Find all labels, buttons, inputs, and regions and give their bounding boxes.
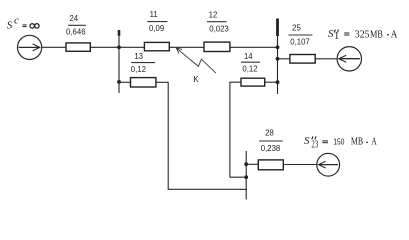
svg-text:150: 150	[333, 138, 345, 147]
label S23'' = 150 MB A	[304, 135, 377, 150]
svg-text:11: 11	[150, 10, 158, 19]
svg-text:S: S	[304, 135, 310, 147]
wire R12 to bus B	[230, 46, 278, 48]
generator G1 circle	[337, 47, 361, 71]
svg-text:K: K	[193, 75, 199, 84]
wire bus A to R13	[119, 81, 131, 83]
value label 14 / 0,12	[241, 52, 260, 74]
wire bus C to R28	[246, 163, 258, 165]
node dot bus C top	[244, 162, 248, 166]
resistor R14	[241, 78, 265, 86]
node dot bus B middle	[276, 57, 280, 61]
svg-text:0,646: 0,646	[66, 28, 86, 37]
svg-text:c: c	[14, 14, 19, 26]
generator G2 circle	[317, 153, 340, 176]
bus B vertical	[277, 19, 279, 95]
wire bus B to R25	[278, 58, 290, 60]
svg-text:23: 23	[311, 139, 318, 151]
wire R28 to generator G2	[283, 164, 317, 166]
wire R14 to bus B	[265, 81, 278, 83]
node dot bus B bottom	[276, 80, 280, 84]
node dot bus C bottom	[244, 175, 248, 179]
wire R13 loop down to bus C	[156, 82, 247, 189]
svg-text:1: 1	[334, 30, 340, 42]
svg-text:А: А	[371, 136, 376, 148]
svg-text:А: А	[391, 28, 398, 40]
svg-text:0,12: 0,12	[131, 65, 146, 74]
value label 25 / 0,107	[289, 23, 313, 46]
svg-text:0,12: 0,12	[242, 65, 257, 74]
svg-text:25: 25	[292, 23, 301, 32]
resistor R28	[258, 160, 283, 170]
value label 28 / 0,238	[259, 128, 283, 153]
wire R14 dogleg to bus C	[230, 82, 246, 177]
svg-text:14: 14	[244, 52, 253, 61]
svg-text:28: 28	[265, 128, 274, 137]
svg-text:13: 13	[134, 52, 143, 61]
label S1'' = 325 MB A	[328, 28, 397, 42]
source system S	[18, 35, 42, 59]
svg-text:24: 24	[69, 14, 78, 23]
node dot bus A bottom	[117, 80, 121, 84]
fault lightning bolt K	[176, 48, 216, 73]
resistor R24	[66, 43, 90, 51]
value label 24 / 0,646	[66, 14, 86, 36]
svg-text:МВ: МВ	[370, 28, 383, 40]
svg-text:0,023: 0,023	[209, 25, 229, 34]
svg-text:325: 325	[355, 28, 370, 40]
svg-text:МВ: МВ	[351, 136, 363, 148]
value label 11 / 0,09	[147, 10, 167, 33]
bus A vertical	[118, 30, 120, 93]
value label 12 / 0,023	[207, 11, 229, 34]
wire R24 to R11 across bus A	[90, 46, 144, 48]
bus C vertical	[245, 151, 247, 200]
node dot bus A top	[117, 45, 121, 49]
resistor R13	[131, 78, 156, 87]
svg-text:12: 12	[209, 11, 218, 20]
label Sc = infinity	[7, 14, 39, 31]
wire R25 to generator G1	[315, 58, 337, 60]
value label 13 / 0,12	[131, 52, 155, 74]
node dot bus B top	[276, 45, 280, 49]
resistor R25	[290, 55, 315, 64]
svg-text:0,107: 0,107	[290, 38, 310, 47]
resistor R12	[204, 42, 230, 51]
wire R11 to R12 (fault point K)	[169, 46, 204, 48]
svg-text:S: S	[7, 20, 13, 32]
resistor R11	[144, 42, 169, 50]
svg-text:0,238: 0,238	[261, 144, 281, 153]
svg-text:0,09: 0,09	[149, 24, 164, 33]
wire source to R24	[42, 46, 66, 48]
